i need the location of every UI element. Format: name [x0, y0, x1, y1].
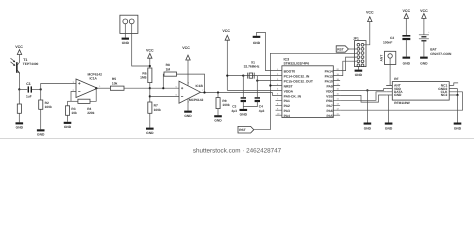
svg-text:C1: C1 — [26, 82, 31, 86]
wire R5 to node D — [124, 87, 150, 89]
power VCC7 (battery) — [420, 9, 428, 35]
svg-text:PC14-OSC32_IN: PC14-OSC32_IN — [284, 75, 310, 79]
wire node A right to C1 — [19, 88, 27, 90]
svg-text:BOOT0: BOOT0 — [284, 70, 296, 74]
wire node C down to R3 — [67, 101, 69, 106]
MCU right pin names — [325, 70, 334, 119]
svg-text:100k: 100k — [45, 105, 52, 109]
capacitor C3 — [231, 97, 246, 113]
RF right pin names — [438, 84, 448, 98]
svg-text:+: + — [428, 31, 430, 34]
power VCC4 (VDDA) — [222, 29, 230, 90]
net flag RST (left) — [238, 126, 254, 133]
svg-text:1M5: 1M5 — [140, 76, 147, 80]
svg-text:PA7: PA7 — [327, 104, 333, 108]
ground GND7 — [214, 115, 222, 122]
ground GND9 (BOOT0) — [253, 36, 261, 45]
svg-text:PB1: PB1 — [326, 99, 333, 103]
svg-text:IC1B: IC1B — [196, 84, 204, 88]
svg-text:GND: GND — [420, 61, 428, 65]
svg-text:VCC: VCC — [146, 49, 154, 53]
resistor R6 1M5 — [140, 68, 152, 83]
svg-text:CR2477-COIN: CR2477-COIN — [430, 52, 452, 56]
node crystal-right junction — [256, 80, 258, 82]
RF right pin stubs — [449, 85, 462, 95]
wire caps join to ground — [243, 101, 257, 109]
node R9 junction — [217, 91, 219, 93]
ground GND15 — [420, 57, 428, 66]
wire crystal left leg down — [242, 76, 244, 98]
svg-text:ANT: ANT — [380, 55, 384, 62]
MCU left pin stubs — [276, 71, 282, 116]
ground GND11 — [364, 123, 372, 131]
svg-text:PC15-OSC32_OUT: PC15-OSC32_OUT — [284, 80, 313, 84]
svg-text:VSS: VSS — [326, 94, 333, 98]
RF left pin names — [394, 84, 403, 98]
svg-text:PA13: PA13 — [325, 75, 333, 79]
MCU IC3 STM32L031F4P6 — [282, 57, 333, 117]
wire ADC signal to PA0 — [273, 93, 276, 96]
svg-text:RST: RST — [239, 128, 246, 132]
svg-text:4µ3: 4µ3 — [231, 109, 237, 113]
svg-text:VDDA: VDDA — [284, 89, 294, 93]
crystal X1 32.768kHz — [244, 60, 260, 78]
svg-text:VCC: VCC — [15, 45, 23, 49]
watermark rule — [0, 137, 474, 139]
svg-text:GND: GND — [146, 131, 154, 135]
svg-text:VDD: VDD — [326, 89, 334, 93]
svg-text:NC2: NC2 — [441, 93, 448, 97]
wire emitter to node A — [19, 74, 21, 90]
node R8 junction — [162, 87, 164, 89]
svg-text:PA1: PA1 — [284, 99, 290, 103]
svg-text:GND: GND — [454, 127, 462, 131]
svg-text:RF: RF — [394, 77, 398, 81]
transistor T1 (phototransistor TEPT4400) — [11, 58, 39, 74]
svg-text:GND: GND — [37, 133, 45, 137]
ground GND13 — [385, 123, 393, 131]
node B junction — [40, 88, 42, 90]
MCU pin numbers — [277, 68, 340, 116]
capacitor C1 1uF — [26, 82, 32, 98]
svg-text:GND: GND — [16, 126, 24, 130]
svg-text:PA2: PA2 — [284, 104, 290, 108]
svg-text:C2: C2 — [390, 36, 394, 40]
resistor R5 10k (series) — [110, 77, 124, 90]
svg-text:PA14: PA14 — [325, 70, 333, 74]
svg-text:GND: GND — [403, 61, 411, 65]
wire NC1 hook — [454, 83, 458, 86]
wire node B down to R2 — [40, 89, 42, 100]
svg-text:100nF: 100nF — [383, 40, 392, 44]
wire header to ground — [357, 67, 359, 70]
svg-text:JP1: JP1 — [353, 37, 359, 41]
svg-text:VCC: VCC — [366, 10, 374, 14]
svg-text:4µ3: 4µ3 — [259, 109, 265, 113]
svg-text:NRST: NRST — [284, 84, 293, 88]
wire node E to IC1B - input — [150, 95, 179, 97]
node output IC1A junction — [95, 87, 97, 89]
ground GND4 (connector) — [122, 38, 130, 45]
wire node A down to R1 — [18, 89, 20, 104]
node D junction — [149, 87, 151, 89]
svg-text:PA3: PA3 — [284, 109, 290, 113]
op-amp IC1B MCP6142 — [176, 81, 205, 103]
svg-text:VCC: VCC — [420, 9, 428, 13]
RF module box — [392, 77, 449, 105]
svg-text:100k: 100k — [222, 103, 229, 107]
ground GND5 — [146, 128, 154, 135]
ground GND6 (IC1B pin 4) — [184, 99, 192, 118]
ground GND1 — [16, 122, 24, 129]
svg-text:1uF: 1uF — [26, 94, 32, 98]
svg-text:1M: 1M — [166, 67, 171, 71]
wire NRST to flag and header — [254, 53, 357, 129]
antenna connector X2 — [380, 51, 396, 85]
svg-text:32.768kHz: 32.768kHz — [244, 64, 260, 68]
rail to IC1B + input — [150, 87, 179, 89]
wire R2 to ground — [40, 109, 42, 129]
ground GND3 — [64, 122, 72, 129]
svg-text:100k: 100k — [154, 108, 161, 112]
wire VSS to ground rail — [340, 95, 386, 102]
svg-text:VCC: VCC — [182, 46, 190, 50]
MCU right pin stubs — [333, 71, 340, 116]
svg-text:TEPT4400: TEPT4400 — [23, 62, 39, 66]
svg-text:PA10: PA10 — [325, 80, 333, 84]
power VCC3 (IC1B pin 8) — [182, 46, 190, 86]
wire PA14 to header — [340, 57, 356, 71]
wire to R9 — [217, 93, 219, 98]
header JP1 (2x6) — [353, 37, 366, 67]
wire node B up and right to IC1A + input — [41, 84, 76, 90]
svg-text:1: 1 — [99, 85, 101, 88]
wire IC1A - input stub — [71, 92, 76, 102]
svg-text:PA5: PA5 — [327, 114, 333, 118]
wire R7 to ground — [149, 113, 151, 127]
wire crystal branch left — [227, 75, 243, 77]
connector J1 (2 pads) — [120, 15, 150, 66]
ground GND8 (caps) — [240, 109, 248, 117]
wire R6 to rail — [149, 83, 151, 89]
svg-text:GND: GND — [385, 127, 393, 131]
wire IC1A output — [98, 87, 111, 89]
svg-text:GND: GND — [364, 127, 372, 131]
wire BOOT0 to GND hook — [257, 33, 276, 71]
svg-text:IC1A: IC1A — [90, 76, 98, 80]
svg-text:RST: RST — [337, 47, 344, 51]
op-amp IC1A MCP6142 — [73, 73, 103, 98]
wire R9 to ground — [217, 109, 219, 116]
wire R8 right to output — [177, 74, 205, 92]
svg-text:PA9: PA9 — [327, 84, 333, 88]
wire PA13 to header — [340, 61, 356, 75]
svg-text:GND: GND — [394, 93, 402, 97]
svg-text:GND: GND — [184, 114, 192, 118]
svg-text:GND: GND — [214, 119, 222, 123]
svg-text:GND: GND — [355, 73, 363, 77]
svg-text:GND: GND — [240, 112, 248, 116]
svg-text:T1: T1 — [23, 58, 27, 62]
wire IC1B output — [201, 92, 273, 94]
power VCC T1 — [15, 45, 23, 62]
svg-text:220k: 220k — [87, 111, 94, 115]
resistor R1 (unlabeled) — [17, 104, 21, 113]
svg-text:MCP6142: MCP6142 — [189, 98, 204, 102]
svg-text:STM32L031F4P6: STM32L031F4P6 — [284, 62, 310, 66]
resistor R2 100k — [39, 100, 52, 109]
power VCC6 (C2) — [403, 9, 411, 35]
ground GND12 — [454, 123, 462, 131]
power VCC2 — [146, 49, 154, 68]
MCU left pin names — [284, 70, 313, 119]
wire C1 to node B — [32, 88, 41, 90]
battery BAT CR2477-COIN — [419, 31, 452, 56]
resistor R7 100k — [148, 102, 161, 113]
wire R4 left to node C — [68, 100, 78, 102]
svg-text:shutterstock.com · 2462428747: shutterstock.com · 2462428747 — [193, 147, 282, 154]
wire R3 to ground — [67, 115, 69, 122]
node NC2 junction — [456, 94, 458, 96]
wire C2 to ground — [405, 40, 407, 57]
node crystal-left junction — [242, 75, 244, 77]
wire crystal right leg down — [256, 76, 258, 98]
svg-text:10k: 10k — [71, 111, 77, 115]
wire NC2 to ground — [457, 95, 459, 123]
wire battery to ground — [423, 41, 425, 57]
node VCC junction — [149, 65, 151, 67]
wire PA6 to RF CLK (long) — [340, 92, 463, 110]
ground GND14 — [403, 57, 411, 66]
svg-text:VCC: VCC — [222, 29, 230, 33]
resistor R4 220k (feedback) — [78, 99, 95, 115]
ground GND10 (header) — [355, 70, 363, 77]
wire node D down — [149, 88, 151, 102]
svg-text:PA6: PA6 — [327, 109, 333, 113]
wire gnd drop — [366, 90, 368, 122]
resistor R8 1M (hysteresis feedback) — [164, 63, 177, 76]
capacitor C2 100nF — [383, 35, 410, 44]
wire GND2-NC2 join — [457, 89, 459, 95]
capacitor C4 — [255, 97, 265, 113]
svg-text:GND: GND — [122, 41, 130, 45]
svg-text:GND: GND — [64, 125, 72, 129]
svg-text:GND: GND — [253, 41, 261, 45]
net flag RST (right) — [336, 46, 356, 52]
wire VDD to RF VDD — [340, 89, 386, 91]
RF left pin stubs — [386, 85, 392, 95]
wire PC15 line — [257, 80, 275, 82]
svg-text:RFM119W: RFM119W — [394, 101, 410, 105]
node E junction — [149, 95, 151, 97]
node output junction — [203, 91, 205, 93]
wire RF GND pin drop — [388, 95, 390, 123]
svg-text:PA4: PA4 — [284, 114, 290, 118]
wire R8 left to rail — [162, 74, 165, 88]
resistor R9 100k — [216, 98, 230, 109]
power VCC5 (header) — [364, 10, 374, 44]
svg-text:10k: 10k — [112, 81, 118, 85]
wire R1 to ground — [18, 113, 20, 122]
svg-text:VCC: VCC — [403, 9, 411, 13]
node VDD-line junction — [366, 89, 368, 91]
ground GND2 — [37, 129, 45, 136]
node A junction — [18, 88, 20, 90]
wire PB1 to RF DATA — [340, 92, 386, 101]
svg-text:PA0-CK_IN: PA0-CK_IN — [284, 94, 302, 98]
feedback riser — [90, 88, 96, 101]
wire VDDA rail to MCU — [227, 89, 275, 91]
resistor R3 10k — [66, 106, 78, 116]
wire PC14 line — [243, 75, 275, 77]
